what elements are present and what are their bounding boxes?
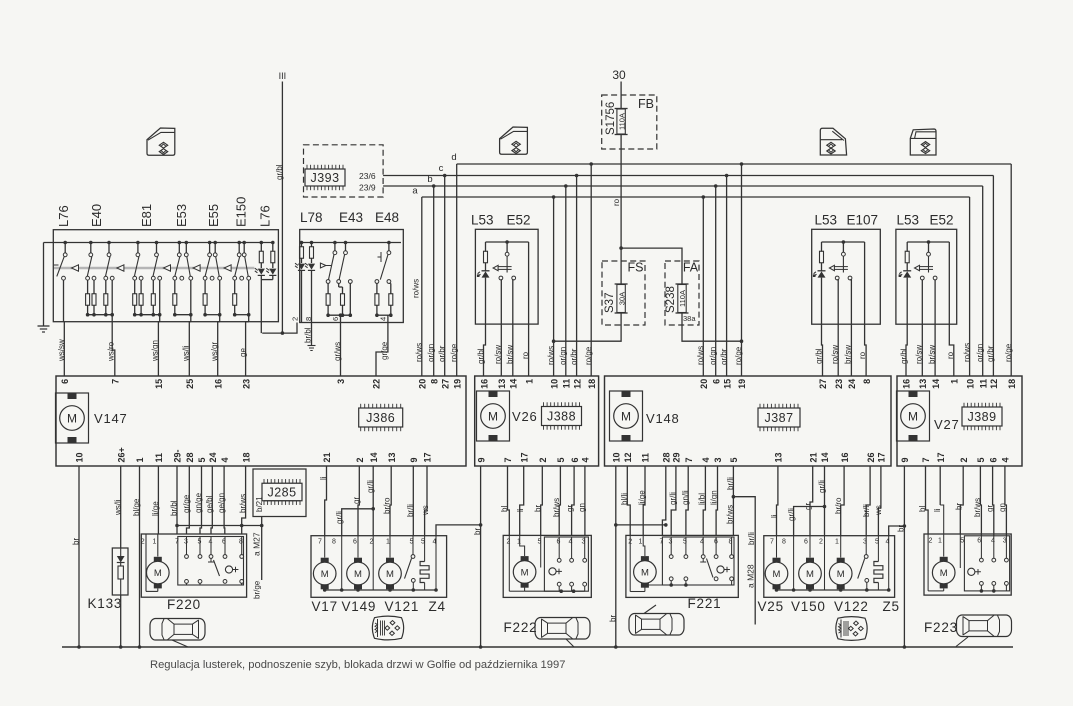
wire bl V26 pin7 [500, 466, 509, 535]
wire gr/li V148 pin14 [818, 466, 827, 536]
svg-text:gn: gn [578, 503, 587, 512]
pin 11 V26 top [562, 379, 572, 389]
label 23/9 [359, 183, 376, 193]
lock unit F220 box [141, 534, 246, 597]
wire li pin21 [319, 466, 328, 536]
svg-text:10: 10 [75, 452, 85, 462]
pin 6 F221 [714, 539, 718, 546]
svg-text:ro/ge: ro/ge [450, 343, 459, 362]
motor V148 [610, 391, 643, 441]
svg-text:Z4: Z4 [429, 599, 446, 614]
svg-text:1: 1 [950, 379, 960, 384]
pin 27 V147 top [440, 379, 450, 389]
svg-text:S238: S238 [665, 286, 677, 313]
svg-text:ws/gr: ws/gr [210, 342, 219, 362]
wire b to V27 pin11 [976, 186, 985, 376]
wire gn/ge pin5 [194, 466, 203, 534]
wire gr/bl V148 pin27 [815, 278, 824, 376]
svg-text:br: br [954, 503, 963, 510]
pin 13 V147 bottom [387, 452, 397, 462]
control unit box V27 J389 [897, 376, 1022, 466]
svg-text:br: br [608, 615, 617, 622]
pin 5 V17-box [410, 539, 414, 546]
pin 2 F221 [628, 539, 632, 546]
lamp-switch unit L53 E107 box [812, 229, 881, 324]
wire br/ws pin18 [239, 466, 248, 534]
svg-text:gn/ge: gn/ge [194, 492, 203, 513]
wire li/ge V148 pin11 [638, 466, 647, 535]
wire li V27 pin17 [933, 466, 942, 512]
svg-text:br/ws: br/ws [726, 505, 735, 524]
wire ge/gn pin4 [217, 466, 226, 534]
wire br/ws V27 pin5 [973, 466, 982, 536]
wire ro V148 pin8 [858, 242, 867, 376]
lamp L78 [295, 241, 315, 323]
svg-text:M: M [908, 410, 918, 424]
svg-text:19: 19 [452, 379, 462, 389]
lock unit F221 box [626, 535, 738, 597]
svg-text:br: br [72, 538, 81, 545]
svg-text:bl: bl [500, 506, 509, 512]
svg-text:br/bl: br/bl [170, 500, 179, 516]
svg-text:6: 6 [60, 379, 70, 384]
svg-text:M: M [321, 569, 329, 580]
heater Z4 [420, 536, 429, 590]
wire br/ro V148 pin16 [834, 466, 844, 536]
label F221 [688, 596, 722, 611]
switch E53 [173, 241, 193, 322]
pin 11 V148 bottom [641, 453, 651, 463]
svg-text:E107: E107 [847, 213, 879, 228]
wire a to V148 pin20 [696, 195, 705, 376]
wire li V26 pin17 [516, 466, 525, 535]
svg-text:8: 8 [429, 379, 439, 384]
node III label [279, 71, 287, 81]
fuse FB dashed box [602, 95, 657, 149]
motor V150 [799, 536, 822, 590]
svg-text:110A: 110A [678, 290, 687, 307]
actuator box V17 V149 V121 Z4 [311, 536, 447, 598]
wire a to V27 pin10 [963, 197, 972, 376]
svg-text:4: 4 [1001, 457, 1011, 462]
wire L76 to III node [260, 322, 263, 333]
wire ro/sw V26 pin13 [494, 280, 503, 376]
fuse FS dashed box [602, 261, 645, 325]
wire ws pin17 [421, 466, 430, 536]
L78 supply bus [301, 242, 401, 244]
wire K133 to ground [119, 595, 123, 649]
op-unit J285 [262, 479, 302, 505]
svg-text:ro/ws: ro/ws [963, 343, 972, 362]
wire br pin9 V26 [473, 466, 482, 649]
svg-text:13: 13 [497, 379, 507, 389]
pin 26 V148 bottom [866, 452, 876, 462]
svg-text:18: 18 [241, 452, 251, 462]
wire ro from FB [612, 135, 623, 285]
svg-text:L76: L76 [258, 205, 273, 227]
pin 6 V148 top [711, 379, 721, 384]
wire gr V27 pin6 [986, 466, 995, 536]
svg-text:V27: V27 [934, 417, 960, 432]
motor V121 [379, 536, 402, 590]
switch E55 [203, 241, 222, 322]
svg-text:E81: E81 [139, 204, 154, 227]
svg-text:24: 24 [847, 379, 857, 389]
svg-text:V121: V121 [385, 599, 420, 614]
svg-text:ro: ro [521, 351, 530, 359]
ground rail [62, 646, 1013, 648]
label 38a [683, 314, 696, 323]
pin 4 V27 bottom [1001, 457, 1011, 462]
label V17 [312, 599, 338, 614]
pin 8 V148 top [862, 379, 872, 384]
svg-text:6: 6 [711, 379, 721, 384]
svg-text:li/gn: li/gn [710, 490, 719, 505]
wire a to V26 pin10 [547, 195, 556, 376]
svg-text:ws/gn: ws/gn [151, 340, 160, 362]
wire junction br F221 [616, 523, 668, 527]
relay J393 dashed box [304, 145, 384, 197]
svg-text:3: 3 [713, 457, 723, 462]
svg-text:6: 6 [977, 538, 981, 545]
wire d to V26 pin18 [584, 162, 593, 376]
svg-text:J285: J285 [267, 486, 296, 500]
motor V26 [477, 391, 510, 441]
svg-text:c: c [439, 163, 444, 174]
svg-text:a: a [412, 186, 418, 197]
svg-text:2: 2 [819, 539, 823, 546]
pin 10 V27 top [965, 379, 975, 389]
op-unit J386 [359, 404, 403, 431]
svg-text:28: 28 [185, 452, 195, 462]
svg-text:ro/ws: ro/ws [696, 346, 705, 365]
fuse FA dashed box [665, 261, 699, 325]
svg-text:26+: 26+ [116, 447, 126, 462]
lock unit F222 box [503, 535, 591, 597]
svg-text:Z5: Z5 [883, 599, 900, 614]
svg-text:V147: V147 [94, 411, 128, 426]
pin 13 V27 top [918, 379, 928, 389]
svg-text:7: 7 [503, 457, 513, 462]
car body ground F221 [629, 605, 684, 635]
pin 3 F223 [1003, 538, 1007, 545]
svg-text:30: 30 [612, 68, 626, 82]
door icon rear-right [910, 129, 936, 155]
svg-text:bl: bl [918, 506, 927, 512]
svg-text:ws/li: ws/li [182, 345, 191, 362]
wire ws V148 pin17 [874, 466, 883, 536]
svg-text:16: 16 [480, 379, 490, 389]
svg-text:FA: FA [683, 261, 699, 275]
svg-text:19: 19 [737, 379, 747, 389]
wire d to V147 pin19 [450, 164, 459, 376]
label L76 left [56, 205, 71, 227]
svg-text:2: 2 [141, 539, 145, 546]
wire FS output to ro/ws [554, 313, 622, 341]
wire br/bl pin29 [170, 466, 179, 534]
pin 1 F222 [517, 539, 521, 546]
svg-text:12: 12 [572, 379, 582, 389]
svg-text:M: M [621, 410, 631, 424]
bus c [383, 163, 993, 176]
wire ws/gr pin16 [210, 322, 220, 376]
pin 8 label L78 [304, 317, 313, 321]
svg-text:4: 4 [991, 538, 995, 545]
svg-text:26: 26 [866, 452, 876, 462]
label E52 mid [507, 213, 531, 228]
svg-text:11: 11 [978, 379, 988, 389]
caption [150, 659, 565, 671]
wire gr/bl III [275, 82, 284, 335]
wire li/ge pin11 [151, 466, 160, 534]
svg-text:a M27: a M27 [252, 532, 262, 556]
bus b [383, 174, 983, 186]
pin 2 label L78 [291, 317, 300, 321]
pin 1 V17-box [386, 539, 390, 546]
svg-text:2: 2 [507, 539, 511, 546]
heater Z5 [874, 536, 883, 590]
svg-text:E43: E43 [339, 210, 363, 225]
key icon left [372, 616, 403, 640]
svg-text:1: 1 [938, 538, 942, 545]
svg-text:ge/gn: ge/gn [217, 493, 226, 513]
svg-text:9: 9 [476, 457, 486, 462]
node 30 label [612, 68, 626, 82]
pin 6 F220 [222, 539, 226, 546]
pin 5 V17-box [421, 539, 425, 546]
svg-text:1: 1 [135, 457, 145, 462]
pin 8 V17-box [332, 539, 336, 546]
pin 26+ V147 bottom [116, 447, 126, 462]
pin 6 label E43 [331, 317, 340, 321]
svg-text:gn: gn [998, 503, 1007, 512]
svg-text:9: 9 [900, 457, 910, 462]
label F222 [504, 620, 538, 635]
pin 5 F221 [683, 539, 687, 546]
switch E40 [86, 241, 115, 322]
pin 8 V25-box [782, 539, 786, 546]
pin 1 V147 bottom [135, 457, 145, 462]
wire ro V26 pin1 [521, 242, 530, 376]
pin 4 F222 [569, 539, 573, 546]
svg-text:gr: gr [352, 497, 361, 504]
pin 23 V147 top [241, 379, 251, 389]
svg-text:ro: ro [946, 351, 955, 359]
pin 5 V27 bottom [976, 457, 986, 462]
fuse S37 30A [604, 284, 628, 313]
svg-text:23/9: 23/9 [359, 183, 376, 193]
pin 7 V148 bottom [684, 457, 694, 462]
F221 inner box [662, 537, 734, 585]
svg-text:M: M [488, 410, 498, 424]
label F220 [167, 597, 201, 612]
svg-text:d: d [451, 152, 456, 163]
wire c to V147 pin27 [438, 174, 447, 376]
lamp-switch L76 left [54, 241, 67, 322]
svg-text:ro/ge: ro/ge [584, 346, 593, 365]
svg-text:E55: E55 [206, 204, 221, 227]
svg-text:bl/li: bl/li [620, 493, 629, 505]
svg-text:14: 14 [820, 452, 830, 462]
svg-text:10: 10 [549, 379, 559, 389]
svg-text:V25: V25 [758, 599, 784, 614]
svg-text:7: 7 [175, 539, 179, 546]
wire ws/gn pin15 [151, 322, 160, 376]
F223 inner box [964, 536, 1009, 591]
svg-text:1: 1 [386, 539, 390, 546]
label K133 [88, 596, 123, 611]
label Z5 [883, 599, 900, 614]
svg-text:M: M [521, 567, 529, 578]
svg-text:or/br: or/br [720, 348, 729, 365]
svg-text:br/sw: br/sw [844, 345, 853, 364]
pin 3 F221 [669, 539, 673, 546]
svg-text:27: 27 [440, 379, 450, 389]
label a M27 [252, 532, 262, 556]
svg-text:V17: V17 [312, 599, 338, 614]
svg-text:3: 3 [336, 379, 346, 384]
actuator box V25 V150 V122 Z5 [764, 536, 895, 598]
svg-text:21: 21 [808, 452, 818, 462]
label E81 [139, 204, 154, 227]
motor F223 [928, 505, 955, 591]
svg-text:ro/ws: ro/ws [412, 279, 421, 298]
svg-text:13: 13 [918, 379, 928, 389]
label V27 [934, 417, 960, 432]
label b/21 [255, 496, 264, 512]
pin 3 V148 bottom [713, 457, 723, 462]
pin 11 V147 bottom [154, 453, 164, 463]
wire gn/li V148 pin7 [681, 466, 690, 535]
svg-text:7: 7 [921, 457, 931, 462]
wire ws/ro pin7 [107, 322, 116, 376]
label V150 [791, 599, 826, 614]
svg-text:ws/sw: ws/sw [57, 339, 66, 362]
wire gr/li V148 pin29 [669, 466, 678, 535]
ground chassis left [38, 243, 50, 333]
svg-text:F223: F223 [924, 620, 958, 635]
svg-text:11: 11 [154, 453, 164, 463]
fuse S1756 110A [605, 102, 628, 135]
pin 2 F220 [141, 539, 145, 546]
svg-text:V148: V148 [646, 411, 680, 426]
svg-text:ro/sw: ro/sw [830, 345, 839, 364]
svg-text:6: 6 [353, 539, 357, 546]
wire a to V147 pin20 [412, 197, 424, 376]
wire gr V148 pin21 [804, 466, 813, 536]
wire ws/li pin25 [182, 322, 191, 376]
svg-text:J388: J388 [547, 410, 576, 424]
switch E48 [375, 241, 393, 323]
wire br tie to Z5 [889, 524, 907, 536]
pin 10 V147 bottom [75, 452, 85, 462]
pin 24 V147 bottom [208, 452, 218, 462]
pin 20 V147 top [418, 379, 428, 389]
svg-text:br: br [897, 525, 906, 532]
svg-text:gr/bl: gr/bl [899, 348, 908, 364]
svg-text:ro/sw: ro/sw [915, 345, 924, 364]
pin 8 F220 [239, 539, 243, 546]
svg-text:gr/bl: gr/bl [275, 164, 284, 180]
svg-text:2: 2 [355, 457, 365, 462]
svg-text:29: 29 [672, 452, 682, 462]
pin 12 V27 top [989, 379, 999, 389]
svg-text:br/ws: br/ws [552, 498, 561, 517]
pin 6 V17-box [353, 539, 357, 546]
pin 16 V147 top [213, 379, 223, 389]
pin 18 V147 bottom [241, 452, 251, 462]
pin 6 V147 top [60, 379, 70, 384]
label L78 [300, 210, 323, 225]
svg-text:li/bl: li/bl [698, 493, 707, 505]
wire ge/bl pin24 [205, 466, 214, 534]
label br/ge [253, 580, 262, 599]
label a M28 [746, 564, 756, 588]
label L53 rear-right [897, 213, 920, 228]
op-unit J393 [305, 165, 345, 190]
svg-text:4: 4 [581, 457, 591, 462]
svg-text:ws/li: ws/li [114, 499, 123, 516]
svg-text:10: 10 [965, 379, 975, 389]
pin 3 F220 [184, 539, 188, 546]
switch V122 relay [858, 536, 869, 590]
pin 25 V147 top [185, 379, 195, 389]
svg-text:24: 24 [208, 452, 218, 462]
wire bl/li V148 pin12 [620, 466, 630, 535]
svg-text:11: 11 [562, 379, 572, 389]
pin 2 F223 [929, 538, 933, 545]
wire br/li V148 pin26 [862, 466, 871, 536]
pin 24 V148 top [847, 379, 857, 389]
pin 5 F222 [538, 539, 542, 546]
pin 10 V148 bottom [612, 452, 622, 462]
switch E43 [320, 241, 352, 323]
pin 2 V26 bottom [538, 457, 548, 462]
svg-text:gr/ge: gr/ge [380, 341, 389, 360]
pin 12 V148 bottom [623, 452, 633, 462]
lamp L53 rear-right [899, 240, 950, 280]
pin 7 V17-box [318, 539, 322, 546]
svg-text:b: b [427, 174, 432, 185]
lamp L53 rear-left [813, 240, 865, 280]
svg-text:M: M [641, 567, 649, 578]
wire ge pin23 [239, 322, 249, 376]
svg-text:16: 16 [840, 452, 850, 462]
pin 17 V147 bottom [423, 452, 433, 462]
pin 3 V25-box [863, 539, 867, 546]
svg-text:J389: J389 [967, 410, 996, 424]
svg-text:20: 20 [699, 379, 709, 389]
label E107 [847, 213, 879, 228]
pin 18 V26 top [587, 379, 597, 389]
svg-text:gn/li: gn/li [681, 490, 690, 505]
svg-text:16: 16 [902, 379, 912, 389]
pin 22 V147 top [372, 379, 382, 389]
wire ro V27 pin1 [946, 242, 955, 376]
svg-text:gr/li: gr/li [669, 492, 678, 505]
wire gn V27 pin4 [998, 466, 1007, 536]
pin 28 V148 bottom [662, 452, 672, 462]
pin 18 V27 top [1007, 379, 1017, 389]
svg-text:7: 7 [111, 379, 121, 384]
svg-text:8: 8 [239, 539, 243, 546]
wire gr/ge pin22 [376, 323, 389, 377]
svg-text:17: 17 [877, 452, 887, 462]
motor F222 [509, 535, 536, 591]
svg-text:V149: V149 [342, 599, 377, 614]
svg-text:13: 13 [387, 452, 397, 462]
contacts F220 [185, 537, 244, 586]
